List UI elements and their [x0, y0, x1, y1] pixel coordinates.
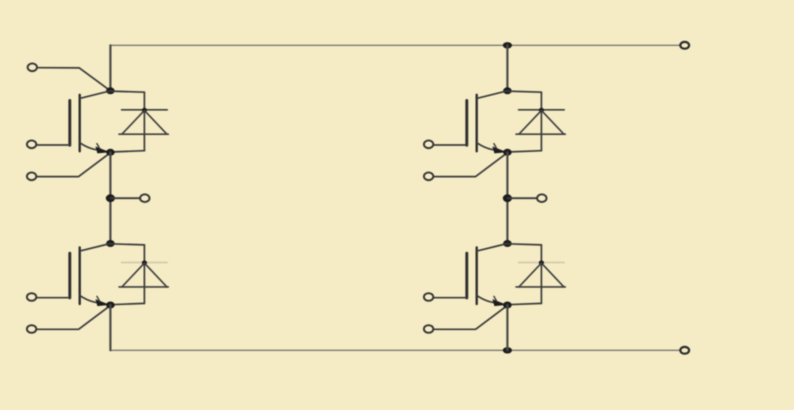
node: right phase midpoint junction	[503, 194, 512, 202]
node: right lower collector	[503, 240, 512, 247]
wire: right phase output lead	[507, 197, 536, 199]
IGBT Q2 (bottom-left): body bar	[78, 248, 80, 305]
IGBT Q1 (top-left): body bar	[78, 95, 80, 152]
diode D4 (bottom-right): wire from collector node to cathode	[507, 244, 541, 245]
diode D3 (top-right): wire from anode to emitter node	[507, 151, 541, 152]
diode D3 (top-right): centre conductor through triangle	[540, 92, 542, 151]
wire: left phase output lead	[110, 197, 139, 199]
diode D4 (bottom-right): triangle	[516, 263, 565, 287]
IGBT Q3 (top-right): gate bar	[465, 101, 468, 146]
diode D1 (top-left): triangle	[119, 110, 168, 134]
diode D3 (top-right): cathode junction dot	[539, 108, 544, 113]
IGBT Q2 (bottom-left): collector lead diagonal	[80, 244, 111, 252]
IGBT Q4 (bottom-right): gate terminal lead	[434, 297, 467, 299]
diode D4 (bottom-right): centre conductor through triangle	[540, 245, 542, 304]
node: left upper emitter	[106, 149, 115, 156]
IGBT Q3 (top-right): emitter lead with arrow	[477, 143, 507, 154]
IGBT Q4 (bottom-right): gate terminal circle	[424, 293, 433, 301]
diode D3 (top-right): cathode bar	[519, 109, 565, 111]
wire: negative DC bus rail (bottom)	[110, 349, 679, 351]
terminal: DC+ bus terminal (top right)	[680, 42, 689, 49]
IGBT Q2 (bottom-left): auxiliary emitter terminal circle	[27, 325, 36, 333]
IGBT Q4 (bottom-right): auxiliary emitter lead	[434, 305, 507, 329]
node: left phase midpoint junction	[106, 194, 115, 202]
wire: left collector drop from top rail	[109, 45, 111, 91]
node: top rail junction at right half-bridge	[503, 42, 512, 48]
node: bottom rail junction at right half-bridge	[503, 347, 512, 353]
terminal: left collector auxiliary circle	[28, 63, 37, 71]
IGBT Q1 (top-left): gate bar	[68, 101, 71, 146]
IGBT Q4 (bottom-right): body bar	[476, 248, 478, 305]
node: right upper collector	[503, 87, 512, 94]
IGBT Q3 (top-right): body bar	[476, 95, 478, 152]
IGBT Q2 (bottom-left): auxiliary emitter lead	[37, 305, 110, 329]
diode D4 (bottom-right): wire from anode to emitter node	[507, 303, 541, 304]
wire: left collector auxiliary lead	[38, 68, 111, 91]
node: right upper emitter	[503, 149, 512, 156]
wire: right phase-leg vertical (emitter to midpoint to lower collector)	[506, 152, 508, 243]
IGBT Q4 (bottom-right): collector lead diagonal	[477, 244, 508, 252]
IGBT Q1 (top-left): collector lead diagonal	[80, 91, 111, 99]
diode D2 (bottom-left): centre conductor through triangle	[143, 245, 145, 304]
IGBT Q4 (bottom-right): emitter lead with arrow	[477, 295, 507, 306]
diode D1 (top-left): cathode junction dot	[142, 108, 147, 113]
node: left upper collector	[106, 87, 115, 94]
IGBT Q1 (top-left): auxiliary emitter terminal circle	[27, 172, 36, 180]
IGBT Q2 (bottom-left): gate terminal circle	[27, 293, 36, 301]
IGBT Q4 (bottom-right): auxiliary emitter terminal circle	[424, 325, 433, 333]
IGBT Q3 (top-right): auxiliary emitter terminal circle	[424, 172, 433, 180]
diode D4 (bottom-right): cathode junction dot	[539, 261, 544, 266]
diode D2 (bottom-left): cathode junction dot	[142, 261, 147, 266]
diode D1 (top-left): cathode bar	[122, 109, 168, 111]
IGBT Q4 (bottom-right): gate bar	[465, 253, 468, 298]
wire: right emitter drop to bottom rail	[506, 305, 508, 350]
terminal: DC- bus terminal (bottom right)	[680, 347, 689, 354]
diode D1 (top-left): centre conductor through triangle	[143, 92, 145, 151]
wire: positive DC bus rail (top)	[110, 44, 679, 46]
IGBT Q3 (top-right): collector lead diagonal	[477, 91, 508, 99]
diode D2 (bottom-left): cathode bar	[122, 262, 168, 264]
terminal: left phase output circle	[140, 194, 149, 202]
IGBT Q2 (bottom-left): emitter lead with arrow	[80, 295, 110, 306]
diode D4 (bottom-right): cathode bar	[519, 262, 565, 264]
diode D2 (bottom-left): triangle	[119, 263, 168, 287]
IGBT Q3 (top-right): gate terminal lead	[434, 144, 467, 146]
diode D3 (top-right): wire from collector node to cathode	[507, 91, 541, 92]
node: left lower collector	[106, 240, 115, 247]
diode D3 (top-right): triangle	[516, 110, 565, 134]
IGBT Q2 (bottom-left): gate terminal lead	[37, 297, 70, 299]
IGBT Q2 (bottom-left): gate bar	[68, 253, 71, 298]
diode D2 (bottom-left): wire from anode to emitter node	[110, 303, 144, 304]
wire: left emitter drop to bottom rail	[109, 305, 111, 350]
IGBT Q1 (top-left): auxiliary emitter lead	[37, 153, 110, 177]
wire: right collector drop from top rail	[506, 45, 508, 91]
node: left lower emitter	[106, 302, 115, 309]
node: right lower emitter	[503, 302, 512, 309]
terminal: right phase output circle	[537, 194, 546, 202]
IGBT Q3 (top-right): gate terminal circle	[424, 140, 433, 148]
IGBT Q1 (top-left): gate terminal lead	[37, 144, 70, 146]
wire: left phase-leg vertical (emitter to midpoint to lower collector)	[109, 152, 111, 243]
IGBT Q1 (top-left): emitter lead with arrow	[80, 143, 110, 154]
IGBT Q1 (top-left): gate terminal circle	[27, 140, 36, 148]
diode D1 (top-left): wire from collector node to cathode	[110, 91, 144, 92]
IGBT Q3 (top-right): auxiliary emitter lead	[434, 153, 507, 177]
diode D1 (top-left): wire from anode to emitter node	[110, 151, 144, 152]
diode D2 (bottom-left): wire from collector node to cathode	[110, 244, 144, 245]
